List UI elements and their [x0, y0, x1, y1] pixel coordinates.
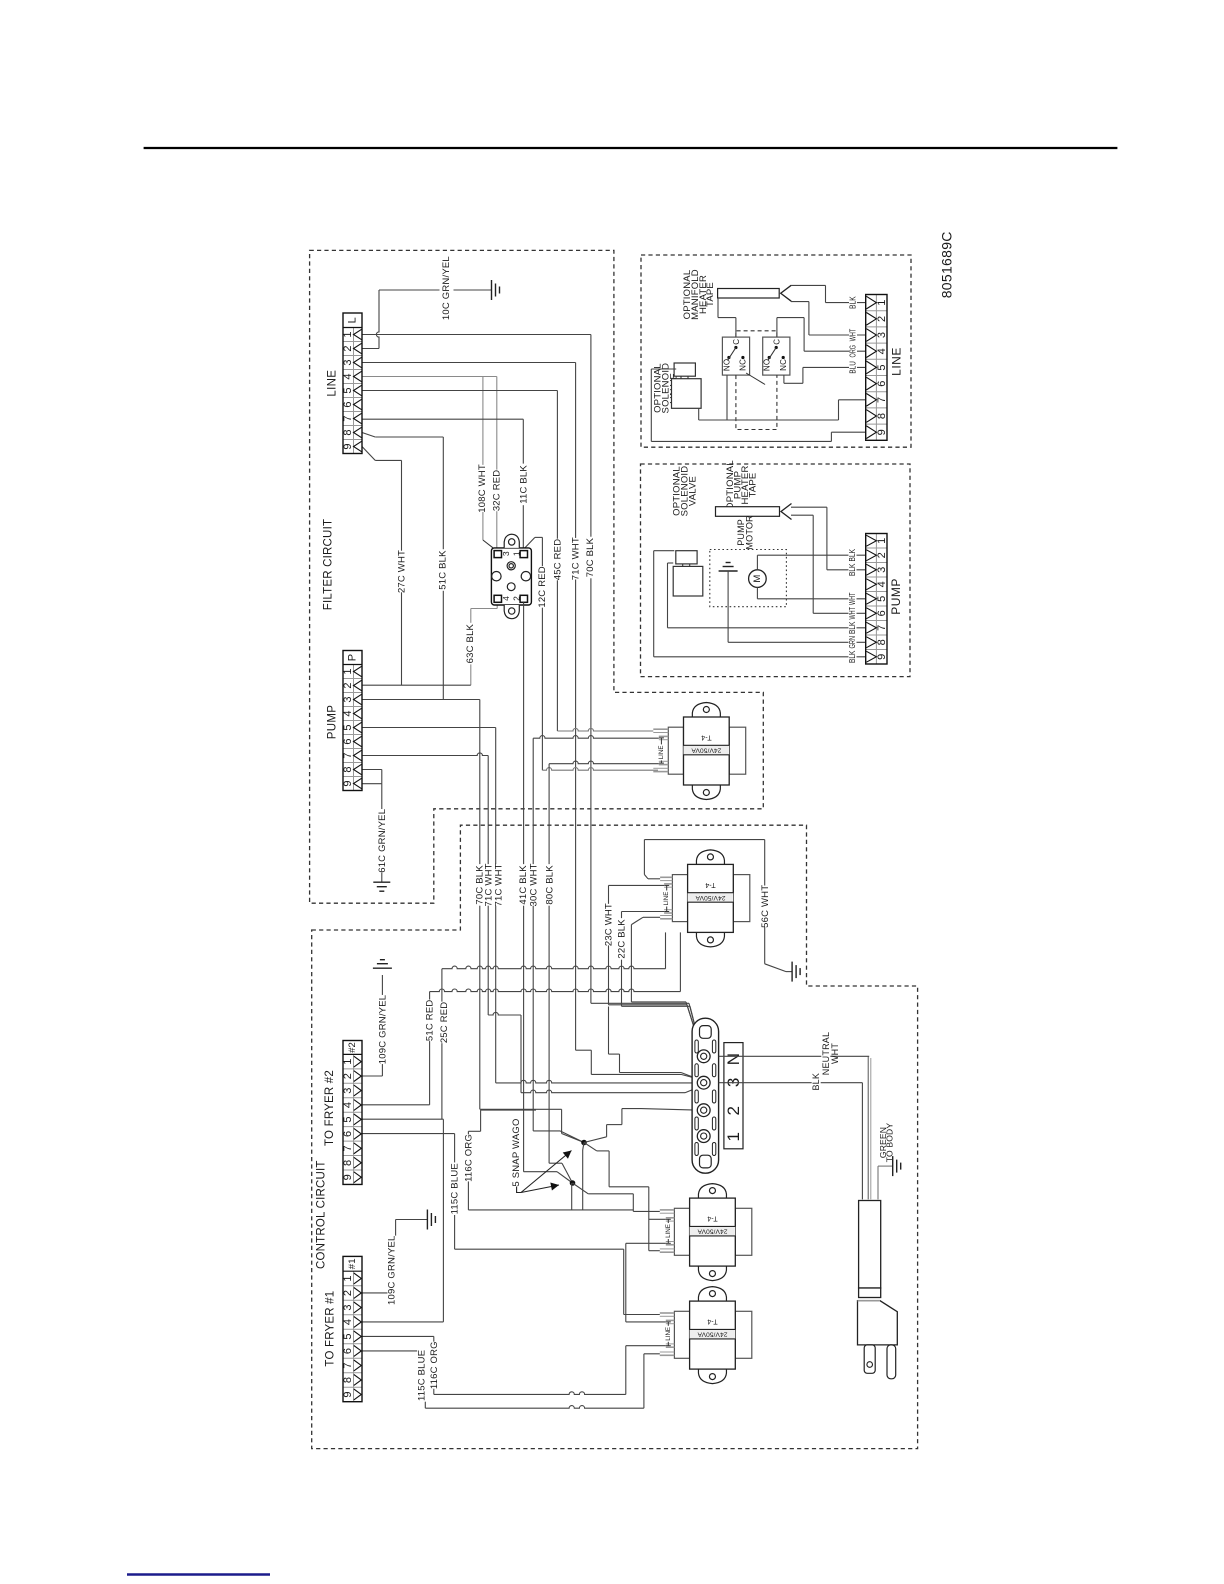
wire label 23C WHT: [604, 904, 614, 946]
svg-text:63C BLK: 63C BLK: [465, 623, 476, 663]
transformer T4 lead inner top: [666, 1319, 675, 1321]
wire 70C BLK from LINE-1 to terminal block N: [362, 334, 591, 336]
svg-text:80C BLK: 80C BLK: [545, 865, 556, 905]
svg-text:C: C: [772, 339, 781, 345]
transformer T4 lead outer top: [660, 1312, 675, 1314]
svg-text:8: 8: [342, 766, 354, 772]
wire label BLU line opt 5: [849, 360, 857, 376]
svg-text:24V/50VA: 24V/50VA: [697, 1331, 728, 1338]
connector J1 pin 1 square: [520, 551, 527, 558]
svg-text:TAPE: TAPE: [748, 473, 759, 498]
svg-text:2: 2: [876, 316, 888, 322]
svg-text:1: 1: [342, 1058, 354, 1064]
svg-text:4: 4: [501, 596, 511, 601]
wire label WHT pump opt 5: [849, 591, 857, 607]
terminal block TB1 screw 3: [697, 1076, 710, 1089]
wire 23C WHT from T2 to terminal block N: [609, 884, 665, 886]
wire label 70C BLK: [586, 537, 596, 579]
wire solenoid SV2 to PUMP-OPT-9 BLK: [654, 550, 675, 552]
transformer T1 winding plate left: [668, 727, 683, 774]
solenoid valve SV2 body: [673, 566, 703, 596]
wire label 109C GRN/YEL fryer1: [387, 1236, 397, 1305]
svg-text:LINE: LINE: [663, 892, 670, 906]
ground G4 pump motor: [719, 563, 738, 572]
svg-text:2: 2: [876, 552, 888, 558]
wire PUMP-7 71C WHT to terminal block 3 lower: [362, 753, 488, 756]
transformer T1 LINE connector bracket: [660, 738, 662, 745]
wire label 45C RED: [553, 539, 563, 581]
svg-text:5: 5: [876, 596, 888, 602]
terminal strip FRYER2: [343, 1041, 362, 1185]
wire label 27C WHT: [397, 551, 407, 593]
wire 116C ORG from FRYER1-5 to T4: [362, 1335, 434, 1337]
svg-text:LINE: LINE: [889, 347, 903, 376]
svg-text:5: 5: [342, 387, 354, 393]
solenoid valve SV2 coil: [676, 551, 697, 564]
svg-text:70C BLK: 70C BLK: [585, 537, 596, 577]
svg-text:51C RED: 51C RED: [425, 1000, 436, 1042]
link diagonal S1 to S2: [746, 373, 765, 385]
svg-text:9: 9: [342, 780, 354, 786]
svg-text:4: 4: [342, 1319, 354, 1325]
svg-text:115C BLUE: 115C BLUE: [450, 1163, 461, 1214]
plug prong left: [864, 1345, 875, 1373]
svg-text:11C BLK: 11C BLK: [518, 465, 529, 504]
svg-text:LINE: LINE: [665, 1224, 672, 1238]
wire T2 outer lead to terminal block N: [643, 916, 660, 918]
wire link FRYER2-5 to FRYER1-4: [442, 1119, 444, 1322]
svg-text:VALVE: VALVE: [688, 476, 699, 506]
terminal block TB1 slot pair 3: [695, 1090, 698, 1103]
svg-text:LINE: LINE: [665, 1327, 672, 1341]
svg-text:116C ORG: 116C ORG: [463, 1134, 474, 1182]
svg-text:6: 6: [342, 1348, 354, 1354]
wire label 25C RED: [440, 1002, 450, 1044]
power cord: [859, 1201, 881, 1289]
wire 109C GRN/YEL fryer1 to ground: [362, 1292, 396, 1294]
svg-text:9: 9: [342, 1174, 354, 1180]
svg-text:23C WHT: 23C WHT: [604, 903, 615, 946]
svg-text:CONTROL CIRCUIT: CONTROL CIRCUIT: [316, 1160, 328, 1269]
wire 27C WHT from LINE-9 to PUMP-2: [362, 447, 375, 461]
solenoid valve SV1 stub: [680, 376, 682, 379]
svg-text:116C ORG: 116C ORG: [429, 1341, 440, 1389]
wire label NEUTRAL WHT: [821, 1034, 830, 1074]
wire label 51C BLK: [438, 549, 448, 591]
svg-text:2: 2: [342, 345, 354, 351]
wire 45C RED from LINE-5 to transformer T1: [362, 390, 557, 392]
wire pump motor bottom to PUMP-OPT-5 WHT: [756, 587, 758, 598]
wire label 115C BLUE fryer2: [450, 1162, 460, 1215]
terminal block TB1 slot pair 5: [695, 1143, 698, 1156]
wire label 115C BLUE fryer1: [417, 1349, 427, 1402]
ground G3 109C GRN/YEL fryer2: [373, 960, 392, 969]
wire label WHT line opt 3: [849, 327, 857, 343]
solenoid valve SV1 coil: [674, 363, 695, 376]
terminal strip LINE: [343, 313, 362, 454]
wire S2 NC to LINE-OPT-5 BLU: [803, 366, 866, 368]
svg-text:1: 1: [342, 331, 354, 337]
transformer T1 lead outer bottom: [653, 767, 668, 769]
ground G1 10C GRN/YEL: [492, 280, 500, 300]
svg-text:TAPE: TAPE: [705, 282, 716, 307]
terminal block TB1 bottom hole: [700, 1155, 712, 1168]
svg-text:10C GRN/YEL: 10C GRN/YEL: [441, 256, 452, 320]
transformer T1 mounting ear bottom: [692, 785, 720, 800]
wire label 56C WHT: [761, 886, 771, 928]
svg-text:24V/50VA: 24V/50VA: [697, 1228, 728, 1235]
svg-text:1: 1: [342, 668, 354, 674]
svg-text:NC: NC: [739, 359, 748, 371]
svg-text:109C GRN/YEL: 109C GRN/YEL: [377, 995, 388, 1064]
svg-text:NO: NO: [722, 359, 731, 371]
wire NEUTRAL WHT from TB1 N to plug: [719, 1055, 870, 1057]
svg-text:2: 2: [512, 596, 522, 601]
pump motor dotted enclosure: [710, 550, 787, 607]
wire 115C BLUE from FRYER2-6 to transformer T4: [362, 1133, 455, 1135]
transformer T3 lead inner bottom: [666, 1241, 675, 1243]
wago splice B: [570, 1180, 576, 1186]
svg-text:2: 2: [342, 1073, 354, 1079]
svg-text:108C WHT: 108C WHT: [477, 464, 488, 513]
svg-text:30C WHT: 30C WHT: [529, 863, 540, 906]
connector J1 center screw: [507, 562, 515, 570]
page header rule: [144, 147, 1118, 149]
wire label 109C GRN/YEL fryer2: [378, 995, 388, 1064]
svg-text:3: 3: [876, 567, 888, 573]
terminal strip PUMP: [343, 651, 362, 791]
heater tape pump: [716, 507, 780, 517]
wire S2 to LINE-OPT-4 ORG: [804, 350, 866, 352]
svg-text:2: 2: [342, 1290, 354, 1296]
svg-text:4: 4: [876, 348, 888, 354]
svg-text:7: 7: [342, 415, 354, 421]
wire S1 NO to solenoid rail: [726, 375, 728, 420]
svg-text:9: 9: [876, 654, 888, 660]
heater tape manifold wedge connector: [781, 285, 792, 301]
contact switch S1 box: [722, 337, 749, 375]
svg-text:BLK: BLK: [849, 296, 858, 309]
svg-text:T-4: T-4: [701, 734, 711, 741]
connector J1 right hole: [521, 572, 530, 581]
wire pump motor ground to PUMP-OPT-8 GRN: [727, 571, 729, 642]
svg-text:1: 1: [724, 1132, 743, 1142]
wire 12C RED from connector pin 1 to transformer T1: [525, 537, 535, 548]
transformer T4 mounting ear bottom: [698, 1369, 726, 1384]
transformer T4 LINE connector bracket: [667, 1322, 669, 1326]
terminal block TB1 slot pair 2: [695, 1064, 698, 1077]
wire 22C BLK from T2 to terminal block N: [622, 911, 665, 913]
wire 10C GRN/YEL from LINE-2 to ground: [362, 348, 379, 350]
transformer T3 body: [690, 1198, 736, 1266]
solenoid valve SV1 body: [672, 379, 702, 409]
svg-text:56C WHT: 56C WHT: [760, 885, 771, 928]
svg-text:3: 3: [876, 332, 888, 338]
wire label BLK pump opt 2: [849, 547, 857, 563]
svg-text:T-4: T-4: [707, 1215, 717, 1222]
transformer T4 body: [690, 1301, 736, 1369]
wire PUMP-5 71C WHT to terminal block 3: [362, 727, 496, 729]
svg-text:115C BLUE: 115C BLUE: [416, 1350, 427, 1401]
wire solenoid SV1 to LINE-OPT-9: [651, 368, 676, 370]
svg-text:3: 3: [342, 359, 354, 365]
wire label 12C RED: [538, 566, 548, 608]
svg-text:5: 5: [342, 724, 354, 730]
terminal block TB1 screw 2: [697, 1104, 710, 1117]
svg-text:L: L: [347, 317, 359, 323]
svg-text:GRN: GRN: [848, 636, 857, 649]
svg-text:ORG: ORG: [849, 345, 858, 358]
terminal block TB1 slot pair 1: [695, 1040, 698, 1053]
transformer T3 winding plate left: [674, 1208, 689, 1255]
svg-text:3: 3: [342, 696, 354, 702]
transformer T2 winding plate right: [733, 875, 750, 922]
svg-text:LINE: LINE: [327, 370, 339, 397]
svg-text:PUMP: PUMP: [327, 705, 339, 739]
svg-text:NC: NC: [779, 359, 788, 371]
transformer T3 lead outer bottom: [660, 1248, 675, 1250]
transformer T4 mounting ear top: [698, 1287, 726, 1302]
svg-text:WHT: WHT: [830, 1043, 840, 1064]
svg-text:109C GRN/YEL: 109C GRN/YEL: [387, 1235, 398, 1304]
svg-text:3: 3: [501, 551, 511, 556]
connector J1 pin 4 square: [494, 595, 501, 602]
wire label 11C BLK: [519, 464, 529, 506]
drain valve connector J1: [491, 534, 531, 619]
wire T3 inner bottom to T4 inner top: [626, 1242, 666, 1244]
terminal block TB1 screw 1: [697, 1130, 710, 1143]
wire 108C WHT / 32C RED from LINE-4 to valve connector: [362, 376, 497, 378]
svg-text:8: 8: [876, 639, 888, 645]
wire label WHT pump opt 6: [849, 606, 857, 622]
contact switch S1 contacts: [734, 346, 737, 349]
line options dashed enclosure: [641, 255, 911, 447]
svg-text:7: 7: [342, 752, 354, 758]
wire 115C BLUE from FRYER1-6 to T4: [362, 1350, 425, 1352]
svg-text:6: 6: [342, 401, 354, 407]
transformer T1 lead outer top: [653, 728, 668, 730]
contact switch S2 box: [763, 337, 790, 375]
svg-text:9: 9: [342, 443, 354, 449]
ground G6 56C WHT: [792, 962, 800, 982]
transformer T1 lead inner bottom: [659, 760, 669, 762]
wire label 80C BLK: [545, 864, 555, 906]
svg-text:MOTOR: MOTOR: [745, 515, 755, 550]
svg-text:51C BLK: 51C BLK: [438, 550, 449, 590]
ground G5 109C GRN/YEL fryer1: [427, 1210, 435, 1230]
wire label ORG line opt 4: [849, 343, 857, 359]
connector J1 lower hole: [507, 583, 515, 591]
terminal block TB1 screw N: [697, 1050, 710, 1063]
svg-text:6: 6: [342, 738, 354, 744]
svg-text:BLK: BLK: [848, 563, 857, 576]
wire manifold tape to LINE-OPT-3 WHT: [791, 301, 809, 303]
wire label BLK pump opt 7: [849, 620, 857, 636]
wire 30C WHT from T1 to wago A: [533, 736, 659, 739]
transformer T3 mounting ear top: [698, 1184, 726, 1199]
pump options dashed enclosure: [641, 464, 911, 677]
ground G2 61C GRN/YEL: [373, 882, 390, 891]
svg-text:1: 1: [512, 551, 522, 556]
svg-text:27C WHT: 27C WHT: [397, 550, 408, 593]
svg-text:5: 5: [342, 1333, 354, 1339]
svg-text:8: 8: [876, 413, 888, 419]
connector J1 left hole: [492, 572, 501, 581]
wire 80C BLK from T1 to wago B: [549, 761, 659, 764]
svg-text:FILTER CIRCUIT: FILTER CIRCUIT: [322, 519, 334, 610]
svg-text:4: 4: [342, 710, 354, 716]
plug body: [858, 1301, 898, 1345]
transformer T2 mounting ear top: [696, 850, 724, 865]
svg-text:BLK: BLK: [848, 650, 857, 663]
wire wago A to terminal block 2: [584, 1137, 607, 1143]
svg-text:BLK: BLK: [848, 621, 857, 634]
svg-text:12C RED: 12C RED: [537, 566, 548, 608]
transformer T3 lead outer top: [660, 1209, 675, 1211]
wire label 32C RED: [492, 470, 502, 512]
svg-text:M: M: [752, 575, 763, 583]
terminal block TB1 top hole: [700, 1026, 712, 1039]
svg-text:7: 7: [876, 625, 888, 631]
wire label GRN pump opt 8: [849, 635, 857, 651]
svg-text:61C GRN/YEL: 61C GRN/YEL: [377, 809, 388, 873]
svg-text:4: 4: [876, 581, 888, 587]
svg-text:2: 2: [724, 1106, 743, 1116]
svg-text:5 SNAP WAGO: 5 SNAP WAGO: [511, 1118, 522, 1186]
contact switch S2 contacts: [775, 346, 778, 349]
terminal block TB1 slot pair 4: [695, 1117, 698, 1130]
transformer T2 lead outer top: [660, 876, 672, 878]
transformer T2 lead inner bottom: [664, 909, 672, 911]
wire 25C RED from FRYER2-5 to transformer T2: [362, 1118, 443, 1120]
heater tape pump wedge connector: [781, 504, 792, 520]
transformer T1 winding plate right: [729, 727, 746, 774]
transformer T4 lead outer bottom: [660, 1351, 675, 1353]
wire label 71C WHT control1: [484, 864, 494, 906]
svg-text:6: 6: [876, 610, 888, 616]
wire 51C BLK from LINE-8 to PUMP-3: [362, 433, 375, 438]
wire label BLK: [812, 1072, 821, 1091]
svg-text:32C RED: 32C RED: [491, 470, 502, 512]
wire label 61C GRN/YEL: [378, 809, 388, 873]
mechanical link dashed S1-S2 lower: [736, 375, 777, 429]
wire label 71C WHT: [571, 538, 581, 580]
wire 63C BLK from connector pin 4 to PUMP-2: [496, 602, 498, 608]
svg-text:LINE: LINE: [658, 746, 665, 760]
transformer T2 body: [688, 864, 734, 932]
wire label BLK line opt 1: [849, 295, 857, 311]
terminal strip LINE-OPT: [866, 295, 887, 441]
svg-text:8: 8: [342, 1377, 354, 1383]
wire PUMP-2 junction horizontal: [362, 684, 471, 686]
control circuit dashed enclosure: [312, 825, 918, 1448]
page footer rule: [127, 1573, 270, 1576]
transformer T4 lead inner bottom: [666, 1343, 675, 1345]
wire wago B junction to 116C ORG run: [571, 1183, 573, 1210]
wire pump tape to PUMP-OPT-6 WHT: [791, 514, 813, 516]
transformer T3 lead inner top: [666, 1217, 675, 1219]
svg-text:25C RED: 25C RED: [439, 1002, 450, 1044]
svg-text:3: 3: [342, 1087, 354, 1093]
heater tape manifold: [718, 289, 780, 299]
wire 71C WHT from LINE-3 to terminal block 3: [362, 362, 576, 364]
svg-text:5: 5: [342, 1116, 354, 1122]
wire pump tape to PUMP-OPT-3 BLK: [791, 506, 827, 508]
svg-text:#2: #2: [347, 1042, 358, 1053]
svg-text:TO FRYER #1: TO FRYER #1: [324, 1291, 336, 1367]
svg-text:6: 6: [876, 380, 888, 386]
svg-text:WHT: WHT: [848, 592, 857, 605]
svg-text:PUMP: PUMP: [889, 578, 903, 615]
wire 56C WHT from T2 to ground: [648, 878, 660, 880]
wire S1 C to tape: [735, 318, 737, 338]
wire 11C BLK from LINE-7 to valve connector pin 1: [362, 418, 523, 420]
wire label BLK pump opt 3: [849, 562, 857, 578]
svg-text:1: 1: [876, 538, 888, 544]
svg-text:C: C: [732, 339, 741, 345]
svg-text:71C WHT: 71C WHT: [484, 863, 495, 906]
svg-text:8: 8: [342, 429, 354, 435]
plug prong right: [887, 1345, 896, 1379]
wire 51C RED from FRYER2-4 to transformer T2: [362, 1104, 430, 1106]
svg-text:T-4: T-4: [707, 1318, 717, 1325]
wire BLK from TB1 3 to plug: [719, 1082, 863, 1084]
leader arrows 5 SNAP WAGO: [517, 1187, 521, 1193]
svg-text:T-4: T-4: [705, 881, 715, 888]
wire 109C GRN/YEL fryer2 to ground: [362, 1075, 382, 1077]
wire GREEN TO BODY from plug to ground: [877, 1166, 879, 1199]
solenoid valve SV2 stub: [682, 564, 684, 567]
transformer T3 LINE connector bracket: [667, 1219, 669, 1223]
wire label 30C WHT: [529, 864, 539, 906]
transformer T1 body: [684, 717, 730, 785]
wire label 116C ORG fryer2: [464, 1134, 474, 1181]
svg-text:N: N: [724, 1053, 743, 1065]
svg-text:1: 1: [342, 1275, 354, 1281]
svg-text:8051689C: 8051689C: [938, 231, 954, 298]
svg-text:7: 7: [342, 1145, 354, 1151]
svg-text:3: 3: [342, 1304, 354, 1310]
pump motor M circle: [749, 570, 767, 588]
svg-text:BLK: BLK: [811, 1073, 821, 1091]
svg-text:1: 1: [876, 299, 888, 305]
svg-text:#1: #1: [347, 1258, 358, 1269]
wire solenoid SV1 to LINE-OPT-7: [698, 408, 700, 420]
svg-text:WHT: WHT: [849, 329, 858, 342]
svg-text:71C WHT: 71C WHT: [493, 863, 504, 906]
transformer T1 lead inner top: [659, 735, 669, 737]
transformer T2 mounting ear bottom: [696, 932, 724, 947]
connector J1 pin 3 square: [494, 551, 501, 558]
wire label 41C BLK: [519, 864, 529, 906]
wire label 70C BLK control: [475, 864, 485, 906]
wago splice A: [581, 1140, 587, 1146]
transformer T3 winding plate right: [735, 1208, 752, 1255]
svg-text:NO: NO: [763, 359, 772, 371]
svg-text:9: 9: [342, 1391, 354, 1397]
wire 116C ORG from wago mesh to transformer T3: [481, 1109, 536, 1111]
wire wago A drop to 116C ORG run: [583, 1143, 584, 1151]
transformer T1 mounting ear top: [692, 703, 720, 718]
svg-text:24V/50VA: 24V/50VA: [691, 747, 722, 754]
transformer T2 lead outer bottom: [660, 915, 672, 917]
svg-text:22C BLK: 22C BLK: [617, 919, 628, 959]
svg-text:8: 8: [342, 1160, 354, 1166]
wire label 108C WHT: [478, 465, 488, 512]
connector J1 pin 2 square: [520, 595, 527, 602]
wire wago B to transformer T3 outer: [573, 1183, 589, 1194]
svg-text:9: 9: [876, 429, 888, 435]
